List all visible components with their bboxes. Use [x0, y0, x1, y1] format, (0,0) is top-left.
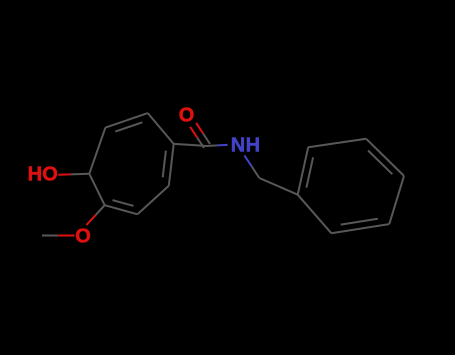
wire ring2 edge R1-R2 [298, 147, 309, 195]
wire ring2 edge R6-R1 [298, 195, 332, 234]
wire ring1 inner double P4-P5 [163, 151, 166, 178]
svg-text:O: O [42, 164, 58, 186]
svg-text:O: O [75, 226, 91, 248]
svg-text:H: H [28, 164, 42, 186]
wire bond O-CH3 [42, 235, 75, 237]
wire bond C-N [207, 145, 228, 146]
wire C=O double line a [190, 127, 204, 148]
wire ring1 edge P1-P2 [89, 128, 105, 174]
wire bond N-CH2 [244, 155, 259, 178]
wire bond HO-ring [58, 174, 89, 175]
wire ring1 edge P3-P4 [148, 113, 174, 144]
wire ring1 edge P4-P5 [169, 144, 174, 186]
wire ring2 inner double R1-R2 [306, 157, 313, 187]
svg-text:O: O [179, 104, 195, 126]
wire ring1 inner double P6-P7 [113, 200, 134, 206]
wire ring1 edge P7-P1 [89, 174, 104, 205]
wire ring2 inner double R3-R4 [368, 151, 392, 175]
svg-text:H: H [246, 134, 260, 156]
wire bond CH2-ring2 [259, 178, 297, 195]
wire ring1 edge P6-P7 [105, 205, 138, 214]
wire ring2 inner double R5-R6 [341, 219, 378, 225]
svg-text:N: N [231, 134, 245, 156]
wire ring1 edge P5-P6 [138, 186, 169, 215]
wire C=O double line b [196, 123, 210, 144]
wire ring1 inner double P2-P3 [115, 122, 142, 131]
wire ring2 edge R2-R3 [308, 139, 366, 147]
wire ring2 edge R5-R6 [331, 224, 389, 233]
wire ring2 edge R4-R5 [389, 176, 404, 224]
wire ring1 edge P2-P3 [105, 113, 147, 128]
wire bond OMe-ring [86, 205, 104, 225]
wire bond ring1-C [174, 144, 207, 146]
wire ring2 edge R3-R4 [366, 139, 404, 176]
